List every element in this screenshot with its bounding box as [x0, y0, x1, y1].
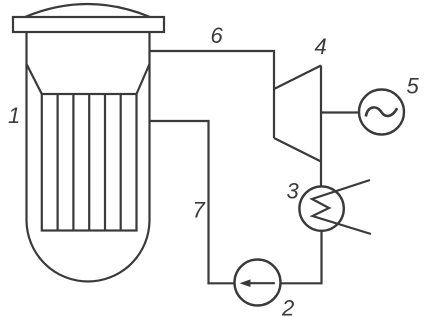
svg-text:6: 6: [211, 23, 224, 48]
svg-text:2: 2: [281, 296, 294, 317]
svg-text:4: 4: [315, 34, 327, 59]
svg-text:7: 7: [193, 197, 206, 222]
svg-text:1: 1: [8, 103, 20, 128]
svg-text:5: 5: [407, 74, 420, 99]
svg-text:3: 3: [287, 178, 300, 203]
